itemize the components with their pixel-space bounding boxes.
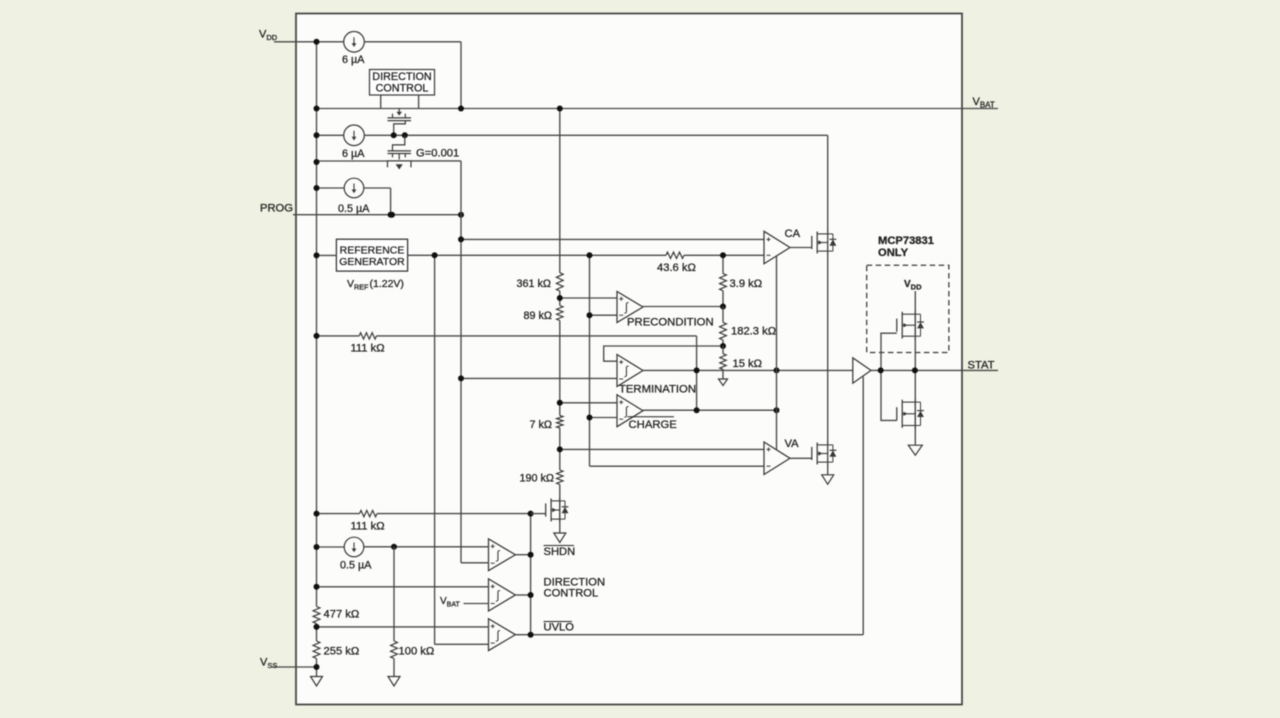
svg-text:MCP73831: MCP73831 <box>878 235 934 247</box>
svg-text:ONLY: ONLY <box>878 247 909 259</box>
svg-text:VA: VA <box>785 438 800 450</box>
svg-text:CONTROL: CONTROL <box>544 588 599 600</box>
svg-text:∫: ∫ <box>495 588 500 602</box>
svg-text:DIRECTION: DIRECTION <box>372 71 431 83</box>
svg-text:6 µA: 6 µA <box>342 148 365 160</box>
svg-text:6 µA: 6 µA <box>342 54 365 66</box>
svg-text:100 kΩ: 100 kΩ <box>399 646 435 658</box>
svg-text:111 kΩ: 111 kΩ <box>351 521 385 533</box>
svg-text:182.3 kΩ: 182.3 kΩ <box>731 326 776 338</box>
svg-text:477 kΩ: 477 kΩ <box>324 609 360 621</box>
svg-text:89 kΩ: 89 kΩ <box>524 310 552 322</box>
svg-text:(1.22V): (1.22V) <box>370 278 404 290</box>
svg-text:0.5 µA: 0.5 µA <box>338 203 370 215</box>
svg-text:PROG: PROG <box>260 203 293 215</box>
svg-text:255 kΩ: 255 kΩ <box>324 646 360 658</box>
svg-text:∫: ∫ <box>495 548 500 562</box>
svg-text:361 kΩ: 361 kΩ <box>517 278 551 290</box>
svg-text:G=0.001: G=0.001 <box>416 148 459 160</box>
svg-text:190 kΩ: 190 kΩ <box>520 473 554 485</box>
svg-text:0.5 µA: 0.5 µA <box>340 560 372 572</box>
svg-text:CA: CA <box>785 228 801 240</box>
svg-text:15 kΩ: 15 kΩ <box>733 358 763 370</box>
svg-text:GENERATOR: GENERATOR <box>339 256 405 268</box>
svg-text:CHARGE: CHARGE <box>629 419 678 431</box>
svg-text:REFERENCE: REFERENCE <box>340 244 405 256</box>
svg-text:111 kΩ: 111 kΩ <box>351 343 385 355</box>
svg-text:∫: ∫ <box>495 628 500 642</box>
svg-text:PRECONDITION: PRECONDITION <box>627 317 714 329</box>
svg-text:CONTROL: CONTROL <box>376 83 429 95</box>
svg-text:∫: ∫ <box>624 300 629 314</box>
svg-text:STAT: STAT <box>968 360 995 372</box>
svg-text:∫: ∫ <box>624 404 629 418</box>
svg-text:TERMINATION: TERMINATION <box>619 384 696 396</box>
svg-text:3.9 kΩ: 3.9 kΩ <box>730 278 763 290</box>
svg-text:SHDN: SHDN <box>544 546 576 558</box>
svg-text:43.6 kΩ: 43.6 kΩ <box>657 262 696 274</box>
svg-text:7 kΩ: 7 kΩ <box>530 419 552 431</box>
svg-text:UVLO: UVLO <box>544 622 575 634</box>
svg-text:∫: ∫ <box>624 364 629 378</box>
